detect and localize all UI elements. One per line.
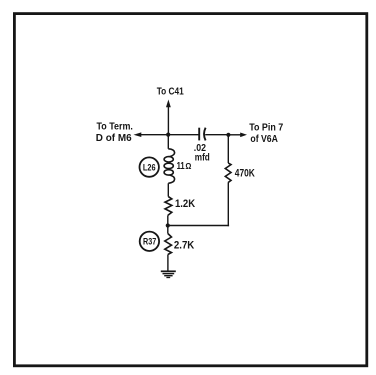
svg-text:470K: 470K: [235, 168, 255, 180]
svg-text:D of M6: D of M6: [96, 133, 132, 144]
resistor 1.2K: [165, 197, 172, 216]
wire to Pin 7 with right arrow: [228, 133, 247, 138]
wire junction A to capacitor: [168, 134, 198, 136]
svg-text:of V6A: of V6A: [250, 134, 278, 145]
node To Term. D of M6 label: [96, 122, 133, 145]
wire to C41 with up arrow: [166, 100, 171, 135]
wire junction C to right branch: [168, 225, 229, 227]
svg-text:mfd: mfd: [195, 153, 210, 164]
wire capacitor to junction B: [205, 134, 228, 136]
wire junction B down to resistor 470K: [227, 135, 229, 163]
wire resistor 470K to bottom wire: [227, 183, 229, 227]
svg-text:2.7K: 2.7K: [174, 240, 194, 252]
svg-text:11: 11: [177, 160, 185, 172]
resistor 470K: [225, 163, 231, 183]
inductor L26 coil: [164, 149, 174, 184]
resistor R37 2.7K: [165, 234, 172, 255]
wire resistor 2.7K to ground: [167, 255, 169, 272]
svg-text:To Pin 7: To Pin 7: [249, 122, 283, 133]
wire resistor 1.2K to junction C: [167, 215, 169, 225]
junction node A: [166, 133, 170, 137]
capacitor C .02 mfd: [199, 128, 205, 141]
node To Pin 7 of V6A label: [249, 122, 283, 145]
svg-text:R37: R37: [143, 237, 156, 247]
designator L26: [140, 157, 159, 176]
svg-text:L26: L26: [143, 162, 156, 172]
ground: [161, 271, 176, 277]
value label .02 mfd: [194, 143, 210, 164]
svg-text:To C41: To C41: [157, 86, 184, 97]
svg-text:To Term.: To Term.: [97, 122, 134, 133]
wire to Term. D of M6 with left arrow: [134, 132, 169, 137]
svg-text:Ω: Ω: [185, 161, 191, 171]
wire junction A down to inductor: [167, 135, 169, 149]
designator R37: [140, 232, 159, 251]
junction node B: [226, 133, 230, 137]
wire junction C to resistor 2.7K: [167, 226, 169, 234]
value label 11Ω: [177, 160, 192, 172]
svg-text:1.2K: 1.2K: [175, 198, 195, 210]
junction node C: [166, 223, 170, 227]
wire inductor to resistor 1.2K: [167, 183, 169, 196]
